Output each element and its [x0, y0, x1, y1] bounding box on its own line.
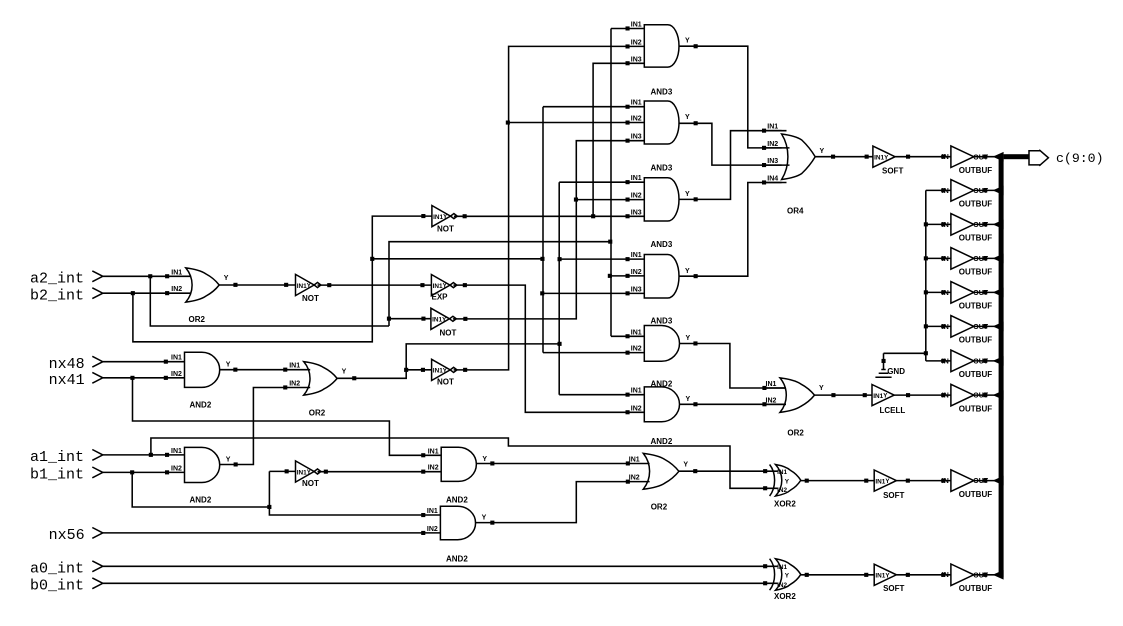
- svg-text:IN3: IN3: [631, 134, 642, 141]
- wire b1 riser to NOT U21 and AND2 U22 IN1: [269, 471, 440, 515]
- svg-text:AND3: AND3: [651, 163, 673, 172]
- wire SOFT U31 Y to OUTBUF row10: [896, 574, 951, 576]
- pin dot U9 IN1: [164, 360, 168, 364]
- pin dot U28 Y: [906, 155, 910, 159]
- wire XOR2 U24 Y to SOFT U31: [801, 574, 874, 576]
- wire GND to outbuf feed column: [884, 352, 926, 354]
- svg-text:IN1: IN1: [432, 317, 442, 324]
- svg-text:Y: Y: [785, 478, 790, 485]
- wire gnd stub to OUTBUF row y=326.4: [926, 325, 951, 327]
- wire OR2 U26 Y to LCELL U29: [815, 394, 873, 396]
- wire EXP U3 Y to AND2 U18 IN2: [453, 285, 644, 412]
- wire OUTBUF row1 output to bus: [974, 156, 995, 158]
- pin dot U3 Y: [463, 283, 467, 287]
- svg-text:AND3: AND3: [651, 88, 673, 97]
- wire stub OR4 U27 IN1: [764, 130, 787, 132]
- svg-text:IN2: IN2: [629, 475, 640, 482]
- wire gnd stub to OUTBUF row y=224.4: [926, 223, 951, 225]
- buffer OUTBUF row6: [951, 316, 974, 338]
- svg-text:IN2: IN2: [631, 405, 642, 412]
- wire NOT U11 input stub: [406, 369, 431, 371]
- pin dot U2 IN: [284, 283, 288, 287]
- and-gate AND2 U22 (b1,nx56): [440, 506, 475, 540]
- pin dots U17 inputs: [626, 334, 630, 338]
- wire OR2 U1 Y to NOT U2: [219, 284, 295, 286]
- wire OR2 U10 Y riser to x559: [337, 344, 559, 378]
- svg-text:Y: Y: [785, 573, 790, 580]
- svg-text:EXP: EXP: [432, 293, 449, 302]
- pin dot U8 Y: [463, 317, 467, 321]
- wire gnd stub to OUTBUF row y=360.9: [926, 360, 951, 362]
- svg-text:IN2: IN2: [428, 465, 439, 472]
- svg-text:IN1: IN1: [873, 393, 883, 400]
- svg-text:IN1: IN1: [433, 214, 443, 221]
- svg-text:NOT: NOT: [302, 479, 319, 488]
- wire stub AND3 U16 IN2: [611, 275, 644, 277]
- svg-text:IN1: IN1: [631, 100, 642, 107]
- buffer OUTBUF row9: [951, 470, 974, 492]
- wire gnd feed vertical x926: [925, 190, 927, 361]
- pin dot U23 Y: [805, 479, 809, 483]
- wire NOT U4 Y to AND3 U15 IN3: [454, 215, 644, 217]
- buffer OUTBUF row3: [951, 214, 974, 236]
- svg-text:IN1: IN1: [631, 175, 642, 182]
- svg-text:IN1: IN1: [433, 368, 443, 375]
- pin dot U20 IN1: [421, 453, 425, 457]
- svg-text:AND2: AND2: [190, 400, 212, 409]
- svg-text:AND3: AND3: [651, 240, 673, 249]
- pin dot U4 IN: [421, 214, 425, 218]
- node a2 junction at NOT U8 tap: [387, 317, 391, 321]
- svg-text:Y: Y: [820, 148, 825, 155]
- wire NOT U11 Y riser x509: [454, 46, 645, 370]
- svg-text:IN1: IN1: [297, 283, 307, 290]
- pin dots U24 inputs: [763, 564, 767, 568]
- svg-text:nx41: nx41: [49, 372, 85, 389]
- node junction OR2 U10 net: [558, 342, 562, 346]
- bus arrowhead row9: [993, 476, 1004, 486]
- pin dot U4 Y: [463, 214, 467, 218]
- pin dot U1 IN2: [165, 291, 169, 295]
- node junction AND3 U15 IN2: [574, 198, 578, 202]
- bus arrowhead row5: [993, 288, 1004, 298]
- wire stub OR2 U26 IN2: [764, 403, 786, 405]
- svg-text:IN1: IN1: [631, 388, 642, 395]
- pin dot U11 IN: [421, 368, 425, 372]
- pin dot U22 Y: [490, 521, 494, 525]
- svg-text:IN2: IN2: [631, 193, 642, 200]
- svg-text:Y: Y: [226, 456, 231, 463]
- svg-text:IN2: IN2: [289, 381, 300, 388]
- pin dot OUTBUF1 IN: [941, 155, 945, 159]
- wire AND2 U9 Y to OR2 U10 IN1: [220, 369, 311, 371]
- wire OR4 U27 Y to SOFT U28: [815, 156, 873, 158]
- pin dot U14 Y: [694, 121, 698, 125]
- pin dot U27 Y: [831, 155, 835, 159]
- wire stub AND3 U14 IN2: [509, 122, 645, 124]
- pin dot U18 Y: [693, 402, 697, 406]
- wire nx41 branch to AND2 U20 IN1: [133, 378, 442, 456]
- pin dots U13 inputs: [626, 26, 630, 30]
- wire stub AND3 U15 IN1: [559, 181, 644, 183]
- svg-text:AND2: AND2: [446, 555, 468, 564]
- svg-text:LCELL: LCELL: [880, 406, 906, 415]
- wire stub AND2 U17 IN2: [543, 352, 644, 354]
- svg-text:OR2: OR2: [189, 315, 206, 324]
- svg-text:nx48: nx48: [49, 356, 85, 373]
- wire AND3 U13 Y to OR4 IN2: [679, 46, 782, 148]
- svg-text:GND: GND: [887, 367, 905, 376]
- pin dot U30 Y: [906, 479, 910, 483]
- node junction b2 tap to x543: [540, 257, 544, 261]
- wire AND2 U18 Y to OR2 U26 IN2: [679, 403, 786, 405]
- pin dot U30 IN: [864, 479, 868, 483]
- pin dot U1 IN1: [165, 274, 169, 278]
- svg-text:IN2: IN2: [777, 582, 787, 589]
- svg-text:IN: IN: [942, 324, 949, 331]
- svg-text:IN1: IN1: [631, 22, 642, 29]
- wire stub OR2 U26 IN1: [764, 387, 786, 389]
- svg-text:IN1: IN1: [631, 329, 642, 336]
- bus arrowhead row2: [993, 186, 1004, 196]
- pin dot U1 Y: [233, 283, 237, 287]
- wire a2 vertical riser x389: [389, 242, 610, 326]
- wire stub AND3 U13 IN1: [611, 28, 644, 30]
- svg-text:OUTBUF: OUTBUF: [959, 404, 992, 413]
- pin dot U13 Y: [694, 44, 698, 48]
- node junction AND3 U16 IN3: [540, 291, 544, 295]
- svg-text:IN2: IN2: [766, 397, 777, 404]
- svg-text:SOFT: SOFT: [883, 584, 904, 593]
- wire b2_int branch down: [133, 216, 432, 342]
- or-gate OR2 U26: [780, 378, 815, 413]
- svg-text:IN3: IN3: [767, 158, 778, 165]
- wire NOT U21 input stub: [269, 470, 295, 472]
- pin dot U2 Y: [327, 283, 331, 287]
- svg-text:IN4: IN4: [767, 176, 778, 183]
- pin dot U25 Y: [693, 469, 697, 473]
- pin dot U31 IN: [864, 573, 868, 577]
- svg-text:OR2: OR2: [787, 428, 804, 437]
- wire a2_int to OR2 U1 IN1: [103, 275, 191, 277]
- pin dots U26 inputs: [762, 386, 766, 390]
- svg-text:b2_int: b2_int: [30, 287, 84, 304]
- svg-text:IN2: IN2: [767, 141, 778, 148]
- wire gnd stub to OUTBUF row y=292.4: [926, 291, 951, 293]
- pin dots U14 inputs: [626, 105, 630, 109]
- svg-text:IN: IN: [942, 290, 949, 297]
- wire AND2 U19 Y to OR2 U10 IN2: [220, 388, 311, 465]
- pin dot U28 IN: [865, 155, 869, 159]
- wire gnd stub to OUTBUF row y=258.4: [926, 257, 951, 259]
- pin dot U9 Y: [233, 368, 237, 372]
- svg-text:Y: Y: [685, 191, 690, 198]
- wire b2 net vertical x543: [542, 107, 544, 353]
- output port c(9:0): [1029, 151, 1041, 165]
- pin dot U9 IN2: [164, 376, 168, 380]
- inverter NOT U4 (b2 bar): [432, 206, 451, 227]
- node nx41 junction: [130, 376, 134, 380]
- svg-text:OR2: OR2: [651, 503, 668, 512]
- svg-text:OUTBUF: OUTBUF: [959, 336, 992, 345]
- pin dot U20 IN2: [421, 470, 425, 474]
- pin dots U25 inputs: [626, 461, 630, 465]
- node junction NOT U4 net: [591, 214, 595, 218]
- pin dot U19 IN2: [165, 470, 169, 474]
- wire stub AND3 U14 IN1: [543, 106, 644, 108]
- svg-text:SOFT: SOFT: [883, 491, 904, 500]
- and-gate AND2 U19 (a1_int,b1_int): [185, 447, 220, 482]
- svg-text:OUTBUF: OUTBUF: [959, 584, 992, 593]
- wire b1_int branch down: [132, 472, 269, 507]
- svg-text:IN: IN: [942, 572, 949, 579]
- pin dot U24 Y: [805, 573, 809, 577]
- svg-text:a2_int: a2_int: [30, 270, 84, 287]
- and-gate AND2 U9 (nx48,nx41): [185, 352, 220, 387]
- svg-text:Y: Y: [686, 335, 691, 342]
- wire NOT U21 Y to AND2 U20 IN2: [318, 471, 442, 473]
- wire OUTBUF row9 output to bus: [974, 480, 995, 482]
- bus arrowhead row10: [993, 570, 1004, 580]
- pin dot OUTBUF8 IN: [941, 393, 945, 397]
- svg-text:Y: Y: [685, 268, 690, 275]
- svg-text:IN: IN: [942, 256, 949, 263]
- and-gate AND3 U13: [644, 25, 679, 67]
- svg-text:IN1: IN1: [777, 564, 787, 571]
- svg-text:XOR2: XOR2: [774, 500, 796, 509]
- svg-text:IN1: IN1: [427, 508, 438, 515]
- svg-text:IN: IN: [942, 222, 949, 229]
- svg-text:nx56: nx56: [49, 527, 85, 544]
- wire XOR2 U23 Y to SOFT U30: [801, 480, 874, 482]
- svg-text:IN: IN: [942, 188, 949, 195]
- wire b1_int to AND2 U19 IN2: [103, 471, 185, 473]
- wire NOT U2 Y to EXP U3: [318, 284, 432, 286]
- wire nx56 to AND2 U22 IN2: [103, 532, 441, 534]
- svg-text:OUTBUF: OUTBUF: [959, 200, 992, 209]
- wire LCELL U29 Y to OUTBUF row8: [894, 394, 951, 396]
- wire stub AND3 U16 IN3: [543, 292, 644, 294]
- inverter EXP U3: [431, 275, 450, 296]
- svg-text:SOFT: SOFT: [882, 166, 903, 175]
- pin dot U22 IN2: [421, 531, 425, 535]
- inverter NOT U2: [296, 274, 315, 295]
- wire NOT U8 Y riser x576: [453, 141, 644, 319]
- wire a2 net vertical x611: [610, 29, 612, 337]
- wire a2 tap to NOT U8 input: [389, 318, 431, 320]
- wire AND2 U20 Y to OR2 U25 IN1: [476, 463, 649, 465]
- buffer OUTBUF row1: [951, 146, 974, 168]
- node b2 junction on b2_int wire: [131, 291, 135, 295]
- wire riser x593 to AND3 U13 IN3: [593, 63, 644, 216]
- pin dot U10 IN1: [283, 368, 287, 372]
- wire AND3 U15 Y to OR4 IN1: [679, 131, 782, 200]
- svg-text:IN2: IN2: [171, 465, 182, 472]
- ground GND symbol: [883, 353, 885, 369]
- wire OUTBUF row7 output to bus: [974, 360, 995, 362]
- svg-text:IN1: IN1: [171, 269, 182, 276]
- svg-text:IN2: IN2: [777, 487, 787, 494]
- node a1 junction: [149, 453, 153, 457]
- wire OUTBUF row8 output to bus: [974, 394, 995, 396]
- svg-text:IN2: IN2: [631, 39, 642, 46]
- svg-text:IN: IN: [942, 478, 949, 485]
- wire AND2 U17 Y to OR2 U26 IN1: [680, 344, 787, 389]
- buffer OUTBUF row7: [951, 350, 974, 372]
- node a2 junction on a2_int wire: [148, 274, 152, 278]
- svg-text:c(9:0): c(9:0): [1056, 151, 1103, 166]
- wire net x559 vertical (OR2 U10 output net): [558, 182, 560, 395]
- wire AND3 U14 Y to OR4 IN3: [679, 123, 782, 165]
- svg-text:Y: Y: [342, 368, 347, 375]
- bus arrowhead row8: [993, 390, 1004, 400]
- buffer OUTBUF row10: [951, 564, 974, 586]
- svg-text:a1_int: a1_int: [30, 449, 84, 466]
- svg-text:IN1: IN1: [171, 448, 182, 455]
- buffer OUTBUF row4: [951, 248, 974, 270]
- or-gate OR2 U1 (a2_int,b2_int): [186, 268, 219, 302]
- svg-text:Y: Y: [482, 515, 487, 522]
- xor-gate XOR2 U23: [776, 465, 801, 497]
- pin dot OUTBUF10 IN: [941, 573, 945, 577]
- bus arrowhead row6: [993, 322, 1004, 332]
- and-gate AND2 U20 (nx41,NOT b1): [441, 447, 476, 481]
- svg-text:OUTBUF: OUTBUF: [959, 166, 992, 175]
- pin dot U15 Y: [694, 197, 698, 201]
- svg-text:IN1: IN1: [767, 124, 778, 131]
- wire stub AND2 U18 IN1: [559, 394, 644, 396]
- svg-text:IN2: IN2: [171, 371, 182, 378]
- node junction gnd column y=292.4: [924, 290, 928, 294]
- svg-text:Y: Y: [686, 396, 691, 403]
- pin dot U29 Y: [906, 393, 910, 397]
- buffer LCELL U29: [872, 385, 894, 406]
- bus arrowhead row3: [993, 220, 1004, 230]
- inverter NOT U11: [432, 359, 451, 380]
- svg-text:OUTBUF: OUTBUF: [959, 302, 992, 311]
- pin dots U16 inputs: [626, 257, 630, 261]
- wire OUTBUF row4 output to bus: [974, 257, 995, 259]
- svg-text:b0_int: b0_int: [30, 577, 84, 594]
- pin dot U8 IN: [421, 317, 425, 321]
- inverter NOT U8 (a2 bar): [431, 308, 450, 329]
- or-gate OR2 U10: [304, 362, 337, 396]
- wire stub OR4 U27 IN4: [764, 182, 787, 184]
- and-gate AND3 U15: [644, 178, 679, 221]
- or-gate OR4 U27: [782, 134, 816, 180]
- bus vertical c(9:0): [999, 154, 1004, 577]
- svg-text:IN1: IN1: [875, 573, 885, 580]
- buffer OUTBUF row8: [951, 384, 974, 406]
- node junction AND3 U16 IN2: [608, 274, 612, 278]
- svg-text:OUTBUF: OUTBUF: [959, 490, 992, 499]
- svg-text:NOT: NOT: [437, 378, 454, 387]
- wire SOFT U28 Y to OUTBUF row1: [895, 156, 951, 158]
- buffer SOFT U28: [873, 146, 895, 167]
- bus arrowhead row7: [993, 356, 1004, 366]
- and-gate AND2 U18: [644, 387, 679, 422]
- pin dots U15 inputs: [626, 180, 630, 184]
- node junction AND3 U16 IN1: [558, 257, 562, 261]
- bus arrowhead row4: [993, 254, 1004, 264]
- or-gate OR2 U25: [643, 453, 679, 489]
- pin dot U29 IN: [863, 393, 867, 397]
- node junction AND3 U14 IN2: [506, 121, 510, 125]
- svg-text:IN3: IN3: [631, 286, 642, 293]
- wire OUTBUF row3 output to bus: [974, 223, 995, 225]
- svg-text:Y: Y: [683, 461, 688, 468]
- pin dot U21 Y: [324, 470, 328, 474]
- wire AND3 U16 Y to OR4 IN4: [679, 183, 782, 277]
- pin dots U23 inputs: [763, 469, 767, 473]
- wire OUTBUF row5 output to bus: [974, 291, 995, 293]
- pin dot OUTBUF9 IN: [941, 479, 945, 483]
- svg-text:IN1: IN1: [875, 478, 885, 485]
- wire stub AND3 U16 IN1: [559, 258, 644, 260]
- svg-text:b1_int: b1_int: [30, 467, 84, 484]
- svg-text:AND3: AND3: [651, 316, 673, 325]
- wire stub OR4 U27 IN2: [764, 147, 790, 149]
- xor-gate XOR2 U24: [776, 559, 801, 591]
- svg-text:AND2: AND2: [446, 495, 468, 504]
- svg-text:IN1: IN1: [777, 469, 787, 476]
- wire stub OR4 U27 IN3: [764, 164, 790, 166]
- svg-text:IN2: IN2: [631, 116, 642, 123]
- wire b2 tap toward x543: [372, 258, 542, 260]
- svg-text:a0_int: a0_int: [30, 560, 84, 577]
- svg-text:Y: Y: [482, 456, 487, 463]
- pin dot U20 Y: [490, 461, 494, 465]
- svg-text:IN1: IN1: [297, 469, 307, 476]
- pin dot U19 IN1: [165, 453, 169, 457]
- node junction gnd column y=326.4: [924, 324, 928, 328]
- svg-text:OR2: OR2: [309, 409, 326, 418]
- node junction a2 riser to x611: [608, 240, 612, 244]
- and-gate AND3 U14: [644, 101, 679, 144]
- pin dot U11 Y: [463, 368, 467, 372]
- svg-text:IN1: IN1: [428, 448, 439, 455]
- buffer SOFT U31: [874, 564, 896, 585]
- buffer OUTBUF row5: [951, 282, 974, 304]
- svg-text:XOR2: XOR2: [774, 592, 796, 601]
- pin dot U17 Y: [693, 341, 697, 345]
- svg-text:Y: Y: [685, 38, 690, 45]
- wire stub AND3 U15 IN2: [576, 199, 644, 201]
- svg-text:OR4: OR4: [787, 207, 804, 216]
- svg-text:IN1: IN1: [874, 155, 884, 162]
- svg-text:IN: IN: [942, 358, 949, 365]
- wire AND2 U22 Y to OR2 U25 IN2: [475, 482, 650, 523]
- svg-text:IN3: IN3: [631, 209, 642, 216]
- wire a1_int branch to XOR2 U23 IN2: [151, 438, 778, 488]
- and-gate AND3 U16: [644, 255, 679, 299]
- buffer OUTBUF row2: [951, 180, 974, 202]
- wire nx41 to AND2 U9 IN2: [103, 377, 185, 379]
- bus horizontal to output connector: [1004, 154, 1029, 159]
- bus arrowhead row1: [993, 152, 1004, 162]
- pin dots U18 inputs: [626, 393, 630, 397]
- wire nx48 to AND2 U9 IN1: [103, 361, 185, 363]
- svg-text:IN1: IN1: [629, 457, 640, 464]
- pin dot U22 IN1: [421, 513, 425, 517]
- svg-text:IN1: IN1: [171, 355, 182, 362]
- svg-text:AND2: AND2: [651, 437, 673, 446]
- wire OUTBUF row2 output to bus: [974, 189, 995, 191]
- svg-text:IN1: IN1: [289, 363, 300, 370]
- wire OUTBUF row10 output to bus: [974, 574, 995, 576]
- node junction NOT U11 tap: [404, 368, 408, 372]
- pin dot U21 IN: [285, 469, 289, 473]
